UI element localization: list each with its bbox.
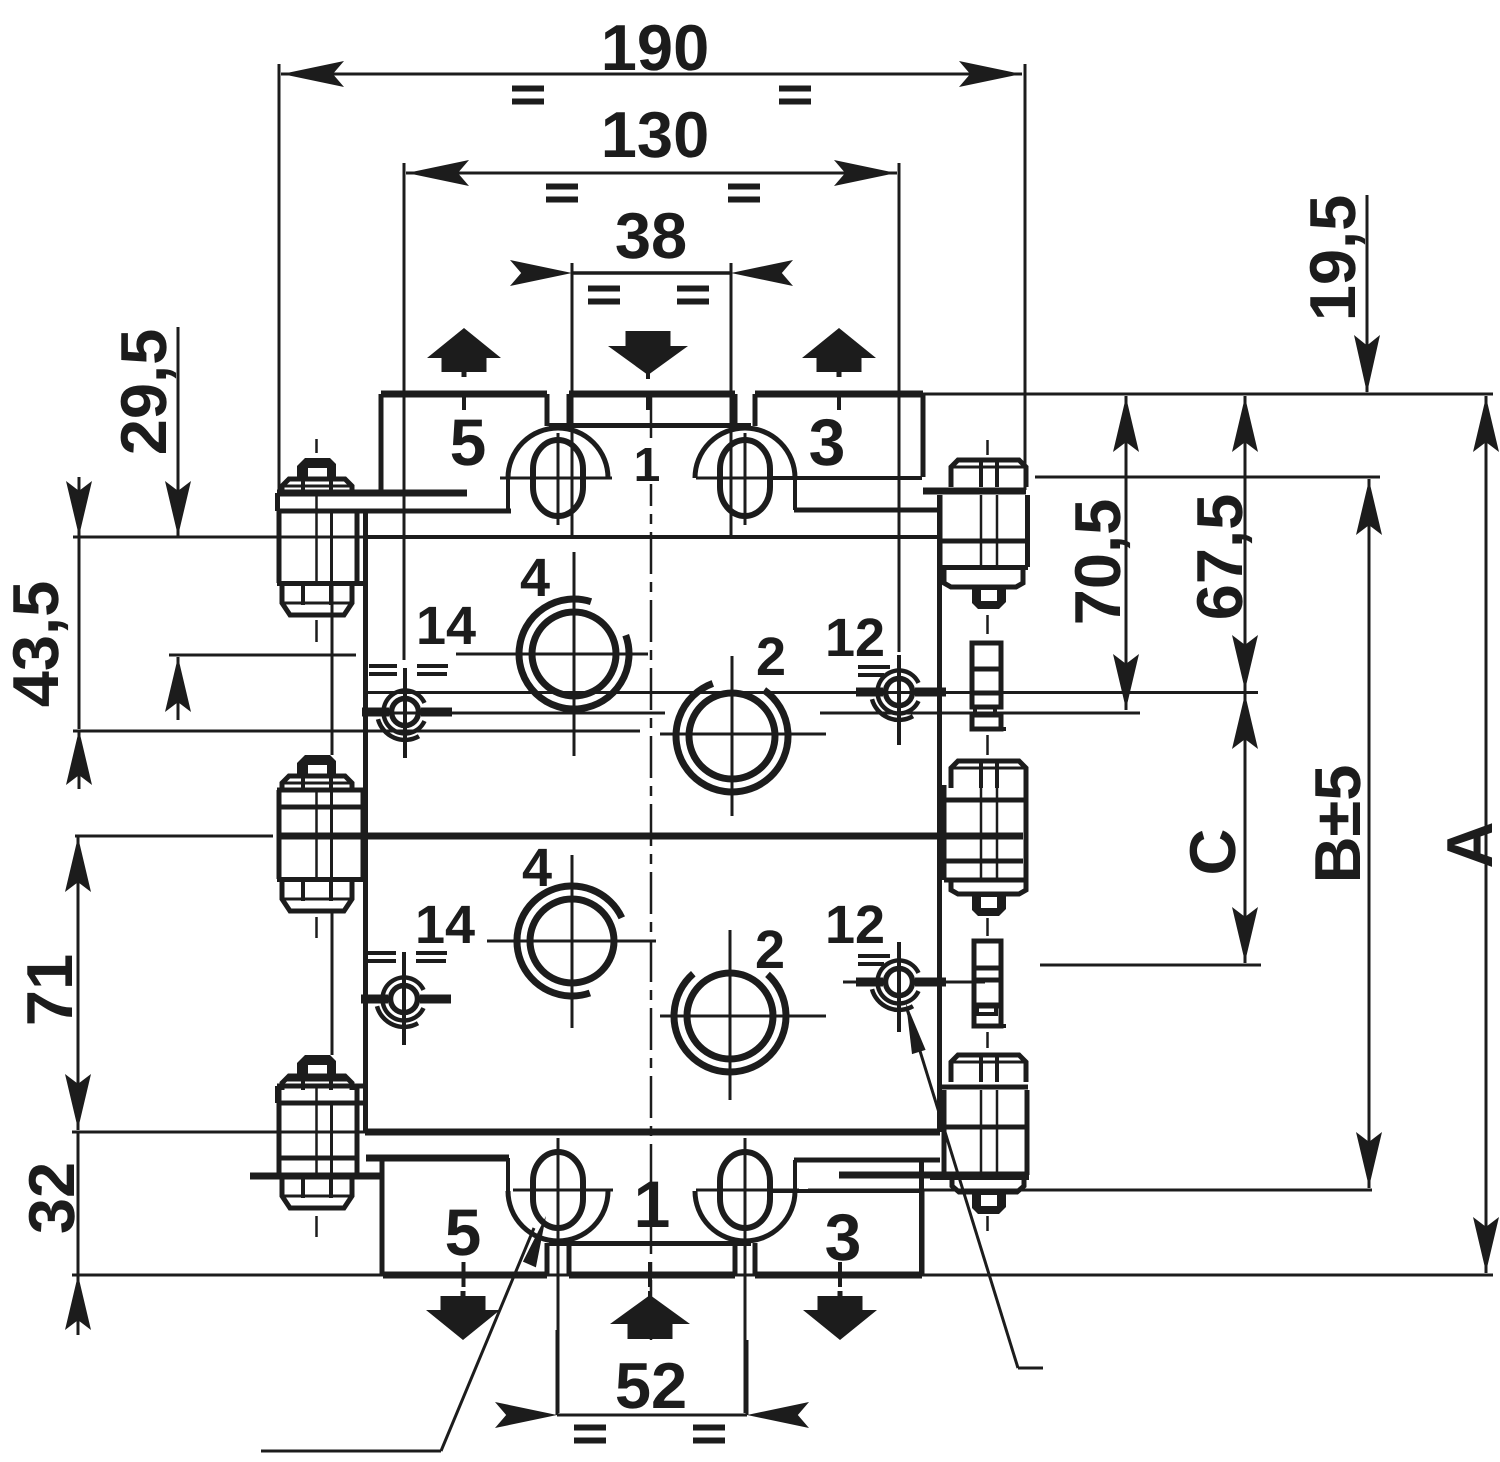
svg-text:B±5: B±5 bbox=[1301, 765, 1374, 884]
svg-text:1: 1 bbox=[634, 439, 661, 492]
svg-text:4: 4 bbox=[522, 838, 552, 898]
svg-text:52: 52 bbox=[615, 1349, 687, 1422]
svg-text:1: 1 bbox=[634, 1167, 671, 1241]
svg-text:5: 5 bbox=[445, 1195, 482, 1269]
svg-text:A: A bbox=[1433, 822, 1500, 869]
svg-text:14: 14 bbox=[415, 895, 475, 955]
svg-text:32: 32 bbox=[15, 1162, 88, 1234]
svg-text:43,5: 43,5 bbox=[0, 581, 72, 708]
svg-text:130: 130 bbox=[601, 98, 709, 171]
svg-text:12: 12 bbox=[825, 608, 885, 668]
svg-text:67,5: 67,5 bbox=[1183, 494, 1256, 621]
svg-text:190: 190 bbox=[601, 11, 709, 84]
svg-text:12: 12 bbox=[825, 895, 885, 955]
svg-text:3: 3 bbox=[809, 405, 846, 479]
svg-text:38: 38 bbox=[615, 199, 687, 272]
svg-text:4: 4 bbox=[520, 548, 550, 608]
svg-text:2: 2 bbox=[755, 920, 785, 980]
svg-text:14: 14 bbox=[416, 596, 476, 656]
svg-text:C: C bbox=[1176, 829, 1249, 876]
svg-text:70,5: 70,5 bbox=[1061, 499, 1134, 626]
svg-text:5: 5 bbox=[450, 405, 487, 479]
svg-text:71: 71 bbox=[13, 954, 86, 1026]
svg-text:2: 2 bbox=[756, 627, 786, 687]
svg-text:29,5: 29,5 bbox=[107, 329, 180, 456]
svg-text:3: 3 bbox=[825, 1200, 862, 1274]
svg-text:19,5: 19,5 bbox=[1296, 195, 1369, 322]
